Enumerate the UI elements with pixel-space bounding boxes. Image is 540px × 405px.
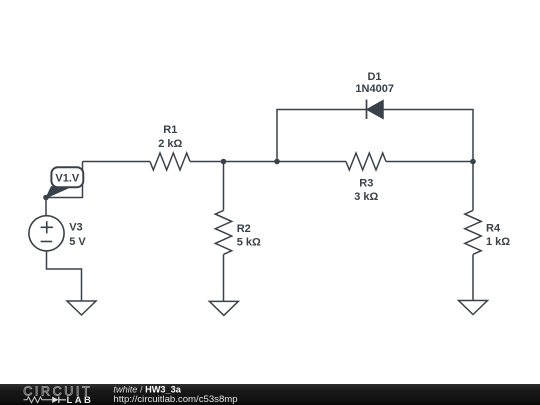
svg-text:R3: R3 — [359, 178, 373, 190]
wire — [83, 161, 151, 163]
wire — [472, 162, 474, 211]
logo resistor zigzag — [24, 397, 53, 403]
svg-text:D1: D1 — [367, 71, 381, 83]
svg-text:V1.V: V1.V — [55, 173, 80, 185]
resistor R1 — [150, 153, 190, 170]
resistor R2 — [215, 210, 231, 254]
wire — [46, 162, 83, 198]
ground — [209, 301, 238, 315]
svg-text:5 kΩ: 5 kΩ — [237, 236, 261, 248]
wire — [277, 110, 367, 162]
svg-text:http://circuitlab.com/c53s8mp: http://circuitlab.com/c53s8mp — [113, 394, 237, 405]
resistor R4 — [465, 210, 481, 254]
diode D1 — [367, 100, 384, 120]
svg-text:1N4007: 1N4007 — [355, 83, 394, 95]
logo diode — [52, 397, 58, 403]
node A junction — [221, 159, 227, 165]
voltage source V3 — [29, 216, 64, 251]
svg-text:5 V: 5 V — [69, 236, 86, 248]
node C junction — [470, 159, 476, 165]
svg-text:2 kΩ: 2 kΩ — [158, 138, 182, 150]
resistor R3 — [346, 153, 386, 170]
ground — [459, 301, 488, 315]
node D junction — [43, 195, 49, 201]
svg-text:V3: V3 — [69, 222, 82, 234]
node B junction — [274, 159, 280, 165]
ground — [67, 301, 96, 315]
svg-text:1 kΩ: 1 kΩ — [486, 236, 510, 248]
wire — [45, 198, 47, 216]
wire — [47, 251, 82, 301]
wire — [190, 161, 346, 163]
wire — [383, 110, 473, 162]
svg-text:LAB: LAB — [67, 395, 94, 405]
svg-text:3 kΩ: 3 kΩ — [354, 191, 378, 203]
wire — [386, 161, 473, 163]
probe flag V1.V — [46, 167, 83, 198]
svg-text:R2: R2 — [237, 223, 251, 235]
wire — [223, 254, 225, 301]
wire — [472, 254, 474, 300]
svg-text:R4: R4 — [486, 223, 501, 235]
footer bar — [0, 384, 540, 405]
svg-text:R1: R1 — [163, 124, 177, 136]
wire — [223, 162, 225, 211]
